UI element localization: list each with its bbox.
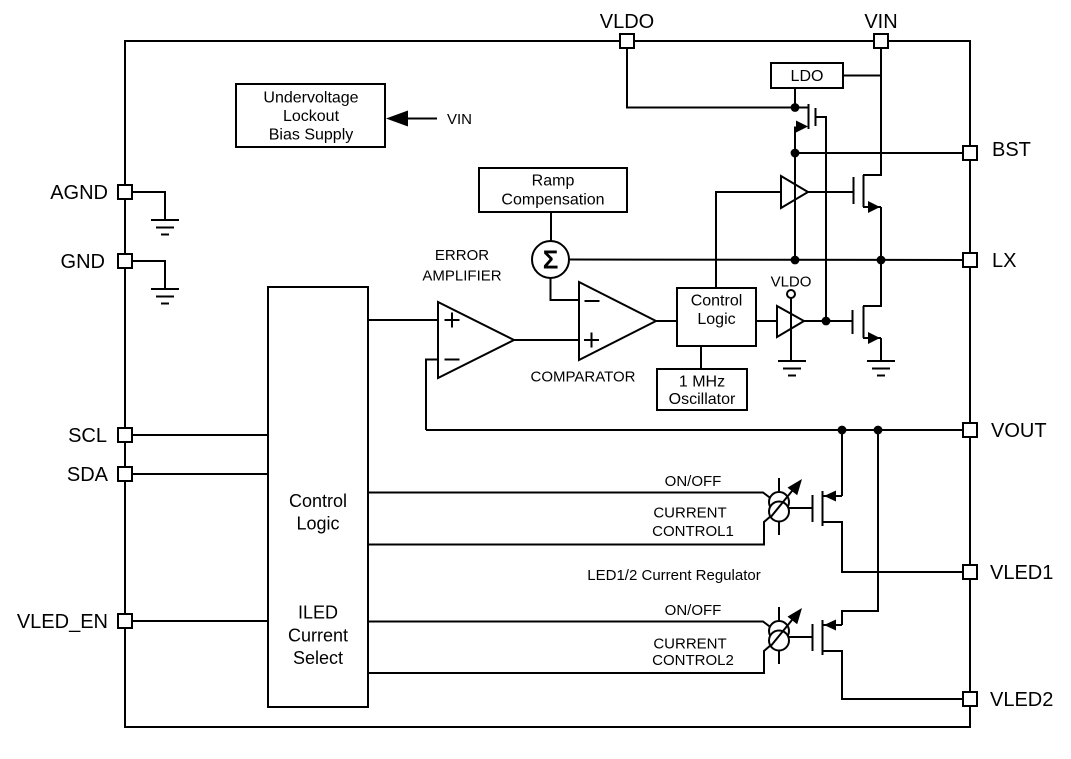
node BST junction — [791, 149, 800, 158]
current source I2 — [769, 607, 802, 664]
node gate drive junction — [822, 317, 831, 326]
high-side driver buffer — [781, 153, 808, 260]
svg-text:Logic: Logic — [697, 311, 735, 328]
node LX driver return — [791, 256, 800, 265]
svg-text:Oscillator: Oscillator — [669, 391, 736, 408]
VIN arrow into UVLO — [386, 111, 472, 129]
svg-text:Bias Supply: Bias Supply — [269, 127, 354, 144]
svg-text:VOUT: VOUT — [991, 420, 1047, 442]
node VOUT LED1 tap — [838, 426, 847, 435]
svg-text:BST: BST — [992, 139, 1031, 161]
wire CURRENT CONTROL2 — [368, 645, 772, 674]
high-side NMOS Q2 — [808, 175, 881, 260]
wire comparator to control logic — [656, 320, 677, 322]
svg-text:LDO: LDO — [791, 68, 824, 85]
pin GND — [61, 251, 132, 273]
svg-text:Lockout: Lockout — [283, 108, 340, 125]
svg-text:Ramp: Ramp — [532, 173, 575, 190]
wire VIN rail down to high-side FET — [863, 48, 881, 175]
svg-text:Select: Select — [293, 648, 343, 668]
wire control logic to low-side driver input — [756, 320, 777, 322]
label CURRENT CONTROL2 — [652, 636, 734, 670]
wire current source to LED2 FET gate — [789, 636, 812, 638]
wire current source to LED1 FET gate — [789, 507, 812, 509]
wire SCL to control logic — [132, 434, 268, 436]
pin VIN — [864, 11, 897, 48]
svg-text:GND: GND — [61, 251, 105, 273]
control logic / ILED current select block — [268, 287, 368, 707]
LED2 NMOS Q5 — [813, 620, 964, 700]
wire BST rail — [795, 152, 963, 154]
ground low-side driver — [778, 361, 806, 376]
label CURRENT CONTROL1 — [652, 505, 734, 541]
svg-text:AGND: AGND — [50, 182, 108, 204]
pin SCL — [68, 425, 132, 447]
svg-text:CURRENT: CURRENT — [653, 636, 726, 653]
pin VLED1 — [963, 562, 1053, 584]
pin VLDO — [600, 11, 654, 48]
error amplifier label — [422, 247, 501, 285]
svg-text:CONTROL2: CONTROL2 — [652, 652, 734, 669]
ground low-side NMOS — [867, 361, 895, 376]
pin BST — [963, 139, 1031, 161]
ramp compensation block — [479, 168, 627, 212]
wire low-side driver output to gates — [804, 320, 852, 322]
svg-text:VIN: VIN — [447, 111, 472, 128]
wire control logic to high-side driver input — [716, 192, 781, 288]
1 MHz oscillator block — [657, 369, 747, 410]
wire VOUT feedback to error amp - input — [426, 360, 438, 431]
wire summer to comparator - input — [551, 278, 580, 300]
svg-text:VLDO: VLDO — [771, 274, 812, 291]
svg-text:VLED_EN: VLED_EN — [17, 611, 108, 633]
LDO block — [771, 63, 843, 88]
wire LDO to VIN rail — [843, 75, 881, 77]
chip outline — [125, 41, 970, 727]
low-side driver buffer — [777, 298, 804, 361]
node VOUT LED2 tap — [874, 426, 883, 435]
node bootstrap LDO junction — [791, 103, 800, 112]
pin SDA — [67, 464, 132, 486]
pin LX — [963, 250, 1016, 272]
pin VOUT — [963, 420, 1047, 442]
svg-text:Compensation: Compensation — [501, 192, 604, 209]
svg-text:ERROR: ERROR — [435, 247, 489, 264]
GND ground — [132, 261, 179, 304]
svg-text:VLDO: VLDO — [600, 11, 654, 33]
svg-text:Control: Control — [289, 491, 347, 511]
svg-text:ILED: ILED — [298, 603, 338, 623]
op-amp error amplifier — [438, 302, 514, 378]
svg-text:Σ: Σ — [543, 245, 559, 275]
svg-text:1 MHz: 1 MHz — [679, 374, 725, 391]
svg-text:CURRENT: CURRENT — [653, 505, 726, 522]
LED1 NMOS Q4 — [813, 430, 964, 572]
control logic block (PWM) — [677, 288, 756, 346]
low-side NMOS Q3 — [853, 260, 882, 361]
svg-text:Undervoltage: Undervoltage — [263, 90, 358, 107]
svg-text:LX: LX — [992, 250, 1016, 272]
comparator — [579, 282, 656, 360]
wire VOUT rail — [426, 429, 963, 431]
current source I1 — [769, 478, 802, 535]
svg-text:VLED2: VLED2 — [990, 689, 1053, 711]
wire VOUT tap down to LED2 FET — [842, 430, 878, 625]
node LX switch junction — [877, 256, 886, 265]
svg-text:CONTROL1: CONTROL1 — [652, 523, 734, 540]
wire error amp output to comparator + input — [514, 339, 579, 341]
VLDO terminal for low-side driver — [771, 274, 812, 299]
svg-text:Logic: Logic — [296, 514, 339, 534]
wire VLDO pin down and over to bootstrap node — [627, 48, 795, 108]
bootstrap FET Q1 — [795, 104, 816, 153]
svg-text:COMPARATOR: COMPARATOR — [530, 369, 635, 386]
pin VLED2 — [963, 689, 1053, 711]
pin AGND — [50, 182, 132, 204]
svg-text:Current: Current — [288, 626, 348, 646]
AGND ground — [132, 192, 179, 235]
svg-text:AMPLIFIER: AMPLIFIER — [422, 268, 501, 285]
svg-text:LED1/2 Current Regulator: LED1/2 Current Regulator — [587, 567, 760, 584]
wire VLED_EN to control logic — [132, 620, 268, 622]
wire LDO output down to bootstrap node — [794, 88, 796, 108]
wire bootstrap FET gate to low-side drive node — [816, 117, 827, 321]
svg-text:VLED1: VLED1 — [990, 562, 1053, 584]
undervoltage lockout bias supply block U1 — [236, 84, 385, 147]
wire CURRENT CONTROL1 — [368, 516, 772, 545]
pin VLED_EN — [17, 611, 132, 633]
wire control logic to oscillator — [700, 346, 702, 369]
wire control logic to error amp + input — [368, 319, 438, 321]
svg-text:SCL: SCL — [68, 425, 107, 447]
summer sigma node — [532, 241, 569, 278]
svg-text:SDA: SDA — [67, 464, 109, 486]
svg-text:VIN: VIN — [864, 11, 897, 33]
svg-text:Control: Control — [691, 293, 743, 310]
wire ON/OFF 2 — [368, 622, 771, 628]
wire ON/OFF 1 — [368, 493, 771, 499]
wire ramp compensation to summer — [550, 212, 552, 241]
svg-text:ON/OFF: ON/OFF — [665, 473, 722, 490]
svg-text:ON/OFF: ON/OFF — [665, 602, 722, 619]
wire LX rail from summer to LX pin — [569, 259, 963, 262]
wire SDA to control logic — [132, 473, 268, 475]
